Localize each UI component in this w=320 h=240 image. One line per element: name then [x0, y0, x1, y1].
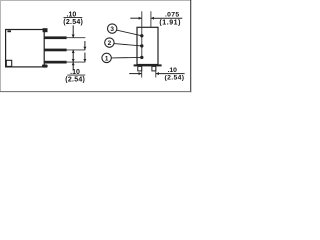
dim leader top (arrow down to pin1 line): [72, 25, 74, 37]
bottom dim ext line left: [141, 66, 143, 77]
pin 1: [44, 36, 66, 39]
bottom flange: [134, 64, 162, 66]
bottom dim rule: [67, 74, 85, 76]
bottom-right foot: [42, 65, 48, 68]
dim leader bottom (arrow up to pin3 line): [72, 62, 74, 70]
bottom dim right tail arrow + rule: [156, 73, 185, 75]
bottom dim left tail arrow: [129, 73, 141, 75]
pin dot 3: [140, 34, 143, 37]
top dim left tail arrow: [130, 17, 141, 19]
bottom-left foot: [6, 60, 11, 66]
top-left inner mark: [7, 30, 11, 32]
leader 2: [114, 44, 142, 46]
pin dot 1: [140, 56, 143, 59]
pin 2: [44, 49, 66, 52]
svg-text:(2.54): (2.54): [63, 19, 83, 26]
right tick line 1 (arrow down to pin2 line): [84, 41, 86, 50]
top-right screw boss: [43, 28, 48, 32]
svg-text:(2.54): (2.54): [164, 75, 184, 82]
extension line pin 2: [67, 49, 86, 51]
svg-text:2: 2: [108, 40, 112, 47]
top dim rule: [64, 16, 83, 18]
svg-text:3: 3: [110, 26, 114, 33]
leader 1: [111, 56, 142, 59]
image border frame: [0, 0, 191, 2]
extension line pin 3: [67, 61, 86, 63]
dim line pin2-pin3 (arrows both ends): [72, 50, 74, 62]
svg-text:.10: .10: [167, 67, 177, 74]
top dim right tail arrow + rule: [151, 17, 182, 19]
body outline: [6, 30, 45, 67]
balloon circle 2: [105, 38, 114, 47]
svg-text:(1.91): (1.91): [159, 19, 181, 26]
left leg: [138, 66, 142, 71]
svg-text:.075: .075: [165, 12, 179, 19]
top dim ext line right: [150, 11, 152, 27]
inner pin column line: [141, 27, 143, 57]
pin dot 2: [140, 44, 143, 47]
leader 3: [117, 30, 142, 36]
balloon circle 1: [102, 53, 111, 62]
extension line pin 1: [67, 37, 86, 39]
right tick line 2 (arrow down to pin3 line): [84, 53, 86, 62]
body outline: [137, 27, 158, 64]
svg-text:1: 1: [105, 55, 109, 62]
svg-text:(2.54): (2.54): [65, 77, 85, 84]
bottom dim ext line right: [155, 66, 157, 77]
pin 3: [44, 61, 66, 64]
top dim ext line left: [141, 11, 143, 27]
balloon circle 3: [108, 24, 117, 33]
right leg: [152, 66, 156, 71]
